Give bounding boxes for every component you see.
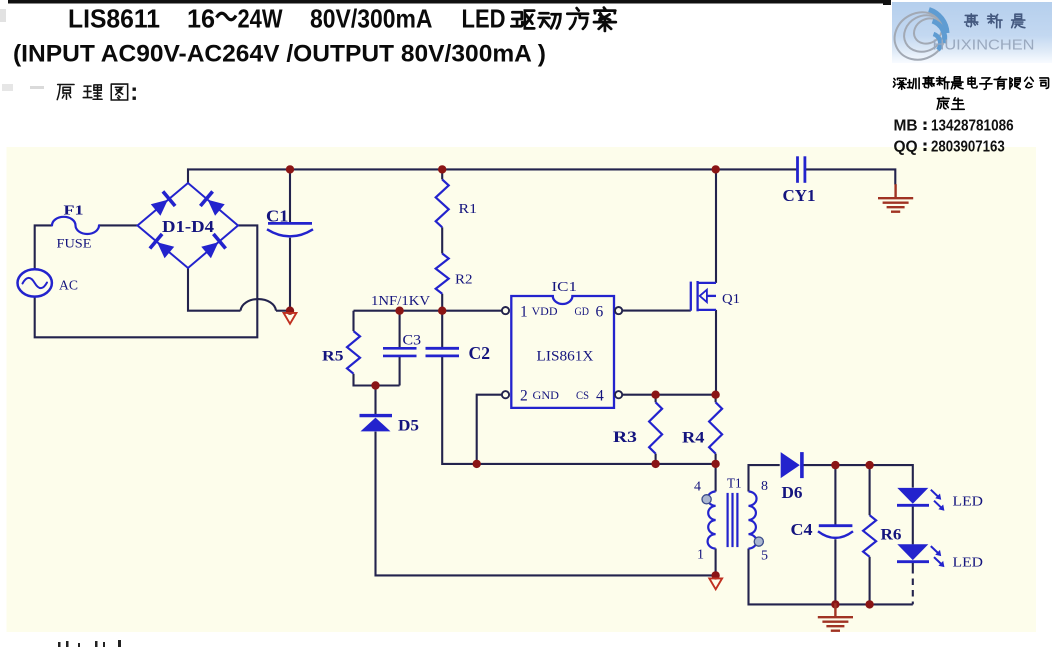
svg-text:13428781086: 13428781086 bbox=[931, 118, 1014, 135]
svg-text:CY1: CY1 bbox=[783, 186, 816, 205]
svg-text:16: 16 bbox=[187, 4, 215, 34]
svg-text:C3: C3 bbox=[403, 333, 422, 349]
svg-text:R2: R2 bbox=[455, 273, 473, 288]
svg-text:1: 1 bbox=[697, 548, 704, 563]
svg-text:LED: LED bbox=[953, 555, 984, 570]
svg-text:4: 4 bbox=[694, 480, 701, 495]
svg-text:5: 5 bbox=[761, 549, 768, 564]
svg-text:(INPUT AC90V-AC264V /OUTPUT 80: (INPUT AC90V-AC264V /OUTPUT 80V/300mA ) bbox=[13, 41, 546, 68]
svg-text:VDD: VDD bbox=[532, 306, 558, 318]
svg-text:R1: R1 bbox=[459, 202, 478, 217]
svg-text:LED: LED bbox=[953, 494, 984, 509]
svg-text:4: 4 bbox=[596, 388, 604, 405]
svg-text:C2: C2 bbox=[469, 343, 491, 363]
svg-text:MB: MB bbox=[894, 118, 918, 135]
svg-text:LIS861X: LIS861X bbox=[537, 349, 594, 365]
svg-text:C1: C1 bbox=[266, 207, 289, 226]
svg-text:8: 8 bbox=[761, 479, 768, 494]
svg-text:1: 1 bbox=[520, 304, 528, 321]
svg-text:R5: R5 bbox=[322, 349, 344, 365]
svg-text:1NF/1KV: 1NF/1KV bbox=[371, 294, 430, 309]
svg-text:D5: D5 bbox=[398, 418, 419, 435]
svg-text:F1: F1 bbox=[64, 203, 84, 218]
svg-text:R6: R6 bbox=[881, 527, 902, 544]
svg-text:LED: LED bbox=[462, 4, 506, 34]
svg-text:24W: 24W bbox=[238, 4, 283, 34]
svg-text:HUIXINCHEN: HUIXINCHEN bbox=[933, 38, 1035, 54]
svg-text:IC1: IC1 bbox=[552, 280, 578, 295]
svg-text:QQ: QQ bbox=[894, 139, 918, 156]
svg-text:6: 6 bbox=[596, 304, 604, 321]
svg-text:Q1: Q1 bbox=[722, 291, 740, 306]
svg-text:2803907163: 2803907163 bbox=[931, 139, 1005, 156]
svg-text:GD: GD bbox=[575, 306, 590, 318]
svg-text:GND: GND bbox=[533, 390, 560, 402]
svg-text:AC: AC bbox=[59, 279, 78, 294]
svg-text:R3: R3 bbox=[613, 429, 637, 446]
svg-text:CS: CS bbox=[576, 390, 589, 402]
svg-text:FUSE: FUSE bbox=[57, 237, 92, 251]
svg-text:T1: T1 bbox=[727, 476, 742, 491]
svg-text:R4: R4 bbox=[682, 430, 705, 447]
svg-text:80V/300mA: 80V/300mA bbox=[310, 4, 433, 34]
svg-text:C4: C4 bbox=[791, 520, 813, 539]
svg-text:2: 2 bbox=[520, 388, 528, 405]
svg-text:D1-D4: D1-D4 bbox=[162, 217, 214, 236]
svg-text:LIS8611: LIS8611 bbox=[68, 4, 160, 34]
svg-text:D6: D6 bbox=[782, 483, 803, 502]
